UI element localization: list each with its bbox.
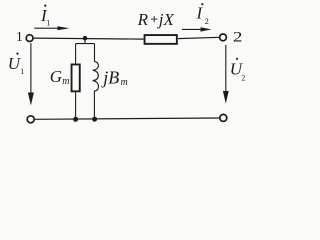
svg-text:m: m <box>121 77 128 88</box>
label jBm <box>101 67 128 88</box>
svg-text:jX: jX <box>157 10 175 29</box>
terminal (bottom-left) <box>27 116 34 123</box>
plus sign of R + jX <box>151 18 157 20</box>
svg-text:R: R <box>137 10 149 29</box>
svg-text:1: 1 <box>46 18 50 27</box>
svg-text:2: 2 <box>241 73 245 82</box>
wire: to inductor <box>94 44 96 62</box>
current arrow I1 <box>34 26 69 30</box>
svg-text:G: G <box>50 67 62 86</box>
wire: branch split bar <box>76 43 95 45</box>
node: bottom-left junction dot <box>73 117 78 122</box>
voltage label U2 <box>230 58 246 83</box>
voltage arrow U2 <box>223 45 229 104</box>
paper background <box>0 0 257 130</box>
terminal 1 (top-left) <box>26 35 33 42</box>
wire: to Gm box <box>75 44 77 64</box>
wire: bottom <box>35 118 219 119</box>
terminal (bottom-right) <box>220 114 227 121</box>
svg-text:jB: jB <box>101 67 119 87</box>
svg-text:m: m <box>62 76 69 87</box>
resistor R+jX (box) <box>145 35 177 44</box>
voltage label U1 <box>8 53 24 76</box>
wire: Gm box to bottom <box>75 92 77 119</box>
label Gm <box>50 67 70 87</box>
current arrow I2 <box>182 27 212 31</box>
current label I1 <box>40 5 50 28</box>
node: top junction dot <box>83 36 88 41</box>
node: bottom-right junction dot <box>92 117 97 122</box>
wire: terminal 1 to resistor <box>34 38 144 39</box>
conductance Gm (box) <box>72 64 80 91</box>
wire: junction stub down <box>84 38 86 43</box>
terminal 2 (top-right) <box>220 34 227 41</box>
svg-text:1: 1 <box>20 67 24 76</box>
voltage arrow U1 <box>28 43 34 105</box>
inductor jBm (coil) <box>93 62 99 91</box>
svg-text:2: 2 <box>205 17 209 26</box>
current label I2 <box>196 3 209 26</box>
wire: resistor to terminal 2 <box>178 37 220 38</box>
svg-text:1: 1 <box>16 29 23 44</box>
svg-text:2: 2 <box>233 29 243 46</box>
wire: inductor to bottom <box>93 91 95 120</box>
